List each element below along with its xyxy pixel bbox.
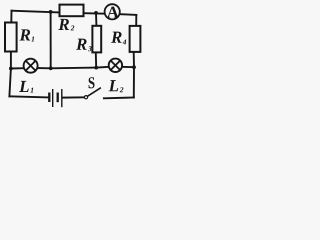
node J2: [94, 11, 98, 15]
wire R1 bottom lead: [10, 52, 12, 69]
wire R3 top lead: [95, 13, 97, 25]
label R4: [111, 32, 126, 45]
wire ammeter to top-right corner: [121, 13, 137, 16]
resistor R3: [92, 26, 101, 53]
wire R4 bottom lead: [133, 52, 135, 67]
wire L2 to right junction: [122, 66, 134, 68]
switch S: [84, 88, 101, 99]
wire left edge lower: [9, 69, 11, 97]
node left mid: [9, 67, 13, 71]
node right mid: [132, 65, 136, 69]
node J3: [49, 66, 53, 70]
label S: [89, 77, 95, 88]
label R3: [76, 39, 92, 52]
wire right edge upper: [135, 15, 137, 26]
wire top R2 to ammeter: [84, 12, 105, 15]
label R2: [58, 19, 74, 31]
node J4: [94, 66, 98, 70]
resistor R4: [130, 26, 141, 52]
resistor R1: [5, 23, 17, 52]
label L2: [109, 80, 124, 92]
wire switch contact to bottom-right corner: [104, 97, 134, 100]
wire node J4 to L2: [96, 66, 108, 69]
wire R3 bottom lead: [95, 53, 97, 67]
lamp L2: [109, 59, 122, 72]
label A: [107, 7, 119, 18]
label L1: [19, 81, 33, 93]
wire top-left segment: [12, 11, 59, 13]
wire L1 to node J3: [38, 67, 51, 69]
wire node J3 to node J4: [51, 67, 96, 70]
wire bottom left to battery: [9, 96, 48, 97]
node J1: [49, 10, 53, 14]
resistor R2: [60, 5, 84, 17]
battery B1: [49, 89, 62, 107]
wire left edge upper: [10, 11, 12, 23]
lamp L1: [24, 59, 38, 73]
ammeter A1: [105, 4, 120, 19]
label R1: [20, 29, 35, 41]
wire vertical branch from J1 to J3: [50, 12, 52, 68]
wire mid left junction to L1: [11, 67, 23, 69]
wire right edge lower: [133, 67, 135, 97]
wire battery to switch: [62, 96, 84, 98]
